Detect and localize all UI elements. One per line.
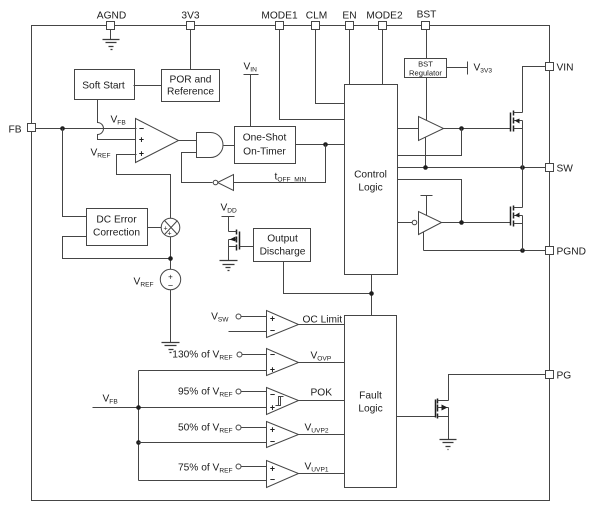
- wire POK comparator to Fault Logic: [299, 400, 345, 402]
- wire Fault Logic to PG FET gate: [397, 416, 436, 418]
- wire DC Error to multiplier: [148, 227, 162, 229]
- node VFB junction 2: [136, 440, 141, 445]
- terminal 50%: [236, 425, 241, 430]
- wire PGND line: [424, 250, 546, 252]
- wire VREF source to ground: [170, 290, 172, 343]
- wire Control Logic to high-side driver: [398, 128, 419, 130]
- svg-text:POK: POK: [311, 388, 333, 399]
- wire junction down to inverter input: [234, 145, 326, 183]
- wire UVP1 comparator to Fault Logic: [299, 473, 345, 475]
- label VOVP: [311, 351, 332, 363]
- node high driver output junction: [459, 126, 464, 131]
- svg-text:POR and: POR and: [170, 75, 212, 86]
- wire comparator output to AND: [179, 140, 197, 142]
- pin SW: [546, 164, 574, 175]
- wire 50% to comparator: [241, 427, 267, 429]
- svg-text:+: +: [270, 464, 275, 474]
- wire MODE2 to Control Logic: [382, 30, 384, 85]
- wire BST Regulator to V3V3 bar: [447, 62, 468, 75]
- wire high feedback to Control Logic: [398, 129, 462, 156]
- block Fault Logic: [345, 316, 397, 488]
- wire low driver reference to PGND: [423, 232, 425, 251]
- label VREF: [91, 148, 111, 160]
- pin BST: [417, 10, 437, 30]
- svg-text:Correction: Correction: [93, 228, 140, 239]
- comparator UVP1: [267, 461, 299, 488]
- wire discharge FET gate to Output Discharge: [240, 246, 254, 248]
- node VFB junction 1: [136, 405, 141, 410]
- svg-text:Fault: Fault: [359, 391, 382, 402]
- svg-text:FB: FB: [9, 125, 22, 136]
- label 95% of VREF: [178, 387, 233, 399]
- ground PG FET: [440, 440, 457, 450]
- wire SW line: [398, 167, 546, 169]
- svg-text:Control: Control: [354, 170, 387, 181]
- wire 3V3 to POR: [190, 30, 192, 70]
- label 75% of VREF: [178, 463, 233, 475]
- pin CLM: [306, 11, 328, 30]
- svg-text:PGND: PGND: [557, 247, 586, 258]
- label VUVP2: [305, 423, 329, 435]
- node control fault junction: [369, 291, 374, 296]
- ground VREF: [162, 343, 180, 353]
- label VFB bank: [103, 394, 119, 406]
- svg-text:Logic: Logic: [358, 404, 382, 415]
- wire MODE1 to Control Logic: [280, 30, 345, 120]
- label VREF source: [134, 277, 154, 289]
- wire summer to VREF source: [170, 237, 172, 271]
- wire Control Logic bottom to Fault Logic: [371, 275, 373, 316]
- wire OC comparator to Fault Logic: [299, 324, 345, 326]
- block Soft Start: [75, 70, 135, 100]
- svg-text:−: −: [168, 281, 173, 291]
- label 130% of VREF: [172, 350, 232, 362]
- node SW junction left: [423, 165, 428, 170]
- node FB junction: [60, 126, 65, 131]
- wire UVP2 comparator to Fault Logic: [299, 434, 345, 436]
- wire high driver output to gate: [444, 128, 511, 130]
- svg-text:−: −: [270, 437, 275, 447]
- svg-text:EN: EN: [342, 11, 356, 22]
- pin PGND: [546, 247, 586, 258]
- svg-text:SW: SW: [557, 164, 574, 175]
- wire EN to Control Logic: [349, 30, 351, 85]
- inverter min off-time: [213, 175, 233, 191]
- wire FB to comparator minus: [36, 128, 137, 130]
- svg-text:3V3: 3V3: [181, 11, 199, 22]
- label tOFF_MIN: [275, 172, 307, 184]
- wire low driver output to gate: [442, 222, 511, 224]
- svg-text:−: −: [270, 350, 275, 360]
- wire FB junction down to DC Error Correction: [63, 129, 87, 217]
- svg-text:Soft Start: Soft Start: [82, 81, 125, 92]
- svg-text:OC Limit: OC Limit: [303, 315, 343, 326]
- comparator POK: [267, 388, 299, 415]
- block Control Logic: [345, 85, 398, 275]
- svg-text:AGND: AGND: [97, 11, 126, 22]
- wire UVP1 lower input from FB: [139, 480, 267, 482]
- svg-text:−: −: [270, 326, 275, 336]
- svg-text:+: +: [139, 149, 144, 159]
- svg-text:Discharge: Discharge: [260, 247, 306, 258]
- wire low feedback to Control Logic: [398, 180, 462, 223]
- wire PG FET source to ground: [448, 417, 450, 440]
- wire high FET drain to VIN: [523, 67, 546, 113]
- label 50% of VREF: [178, 423, 233, 435]
- wire summer output up to comparator plus: [117, 155, 171, 219]
- svg-text:Regulator: Regulator: [409, 69, 442, 78]
- wire BST to BST Regulator: [426, 30, 428, 59]
- svg-text:Logic: Logic: [358, 183, 382, 194]
- node PGND junction: [520, 248, 525, 253]
- node VREF junction: [168, 256, 173, 261]
- terminal 130%: [237, 352, 242, 357]
- block BST Regulator: [405, 59, 447, 78]
- transistor discharge FET: [229, 230, 240, 261]
- block Output Discharge: [254, 229, 311, 262]
- svg-text:−: −: [139, 124, 144, 134]
- label V3V3: [474, 63, 493, 75]
- svg-text:BST: BST: [417, 10, 437, 21]
- svg-text:DC Error: DC Error: [96, 215, 137, 226]
- buffer low-side driver with bubble: [412, 212, 441, 235]
- wire DC Error output loop to VREF node: [63, 237, 171, 259]
- svg-text:MODE2: MODE2: [366, 11, 403, 22]
- wire VFB distribution vertical: [138, 371, 140, 481]
- transistor PG FET: [436, 399, 449, 419]
- svg-text:+: +: [270, 403, 275, 413]
- label VUVP1: [305, 462, 329, 474]
- wire Output Discharge to control junction: [284, 262, 372, 294]
- comparator OC Limit: [267, 311, 299, 338]
- op-amp error comparator: [136, 119, 179, 163]
- wire One-Shot output to Control Logic: [296, 144, 345, 146]
- pin AGND: [97, 11, 126, 30]
- AND gate: [197, 133, 235, 158]
- svg-text:+: +: [270, 365, 275, 375]
- svg-text:+: +: [139, 135, 144, 145]
- wire Soft Start to POR: [134, 85, 162, 87]
- wire low FET drain to SW: [522, 168, 524, 208]
- summer multiplier circle: [161, 218, 180, 237]
- wire 95% to comparator: [241, 391, 267, 393]
- label POK: [311, 388, 333, 399]
- wire OVP lower input from FB: [139, 370, 267, 372]
- block DC Error Correction: [87, 209, 148, 246]
- transistor high-side FET: [511, 111, 523, 132]
- label VDD supply: [221, 203, 238, 232]
- svg-text:+: +: [270, 425, 275, 435]
- svg-text:Reference: Reference: [167, 87, 214, 98]
- wire OC limit lower input: [229, 331, 267, 333]
- svg-text:−: −: [270, 390, 275, 400]
- pin FB: [9, 124, 36, 136]
- svg-text:Output: Output: [267, 234, 298, 245]
- wire VSW to comparator: [241, 316, 267, 318]
- transistor low-side FET: [511, 206, 523, 227]
- wire high driver reference to SW: [425, 138, 427, 168]
- wire OVP comparator to Fault Logic: [299, 362, 345, 364]
- wire inverter output to AND gate: [182, 153, 213, 183]
- pin PG: [546, 371, 572, 382]
- label VIN supply: [244, 62, 259, 127]
- wire BST Regulator to high driver: [426, 78, 428, 121]
- comparator OVP: [267, 349, 299, 376]
- svg-text:+: +: [167, 231, 171, 238]
- wire Soft Start to comparator with hop over FB: [98, 100, 137, 140]
- pin VIN: [546, 63, 574, 74]
- node One-Shot output junction: [323, 142, 328, 147]
- wire 75% to comparator: [241, 466, 267, 468]
- wire UVP2 lower input from FB: [139, 442, 267, 444]
- svg-text:CLM: CLM: [306, 11, 328, 22]
- wire VFB to POK input: [93, 407, 267, 409]
- svg-text:One-Shot: One-Shot: [243, 133, 287, 144]
- svg-text:On-Timer: On-Timer: [243, 147, 286, 158]
- pin EN: [342, 11, 356, 30]
- pin 3V3: [181, 11, 199, 30]
- buffer high-side driver: [419, 117, 444, 141]
- wire Control Logic to low-side driver: [398, 222, 413, 224]
- block One-Shot On-Timer: [235, 127, 296, 164]
- wire low FET source to PGND: [522, 224, 524, 251]
- node SW junction right: [520, 165, 525, 170]
- svg-text:MODE1: MODE1: [261, 11, 298, 22]
- pin MODE2: [366, 11, 403, 30]
- terminal 95%: [236, 389, 241, 394]
- block POR and Reference: [162, 70, 220, 102]
- label low driver supply bar: [421, 196, 433, 216]
- svg-text:PG: PG: [557, 371, 572, 382]
- ground AGND: [103, 40, 120, 50]
- wire 130% to comparator: [242, 354, 267, 356]
- wire AGND to ground: [110, 30, 112, 40]
- wire CLM to Control Logic: [316, 30, 345, 104]
- terminal VSW: [236, 314, 241, 319]
- label VSW input: [211, 312, 229, 324]
- node low driver output junction: [459, 220, 464, 225]
- pin MODE1: [261, 11, 298, 30]
- comparator UVP2: [267, 422, 299, 448]
- source VREF: [160, 269, 180, 290]
- svg-text:BST: BST: [418, 60, 433, 69]
- svg-text:VIN: VIN: [557, 63, 574, 74]
- terminal 75%: [236, 464, 241, 469]
- svg-text:−: −: [270, 475, 275, 485]
- wire PG FET drain to PG pin: [449, 375, 546, 401]
- wire high FET source to SW: [522, 129, 524, 168]
- svg-text:+: +: [270, 314, 275, 324]
- label VFB: [111, 115, 127, 127]
- label OC Limit: [303, 315, 343, 326]
- ground discharge FET: [220, 261, 238, 271]
